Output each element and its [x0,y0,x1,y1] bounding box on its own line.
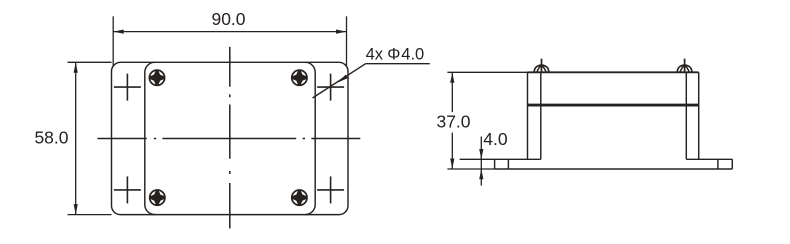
dim 58.0 extension lines [68,62,112,214]
side view: left wall outer edge [527,72,529,159]
centerline horizontal [98,138,361,140]
dim 4.0 arrows [479,149,483,179]
top view: outer plate outline [112,62,349,214]
side view: right flange top surface [686,158,732,160]
side view: base plate left end [494,159,496,169]
leader diagonal [313,64,366,98]
side view: thick mid line [528,104,699,107]
screw side left [534,59,549,73]
screw top-right [292,70,307,85]
svg-text:4xΦ4.0: 4xΦ4.0 [366,46,425,64]
dim 90.0 line [113,31,346,33]
svg-text:58.0: 58.0 [34,128,68,148]
hole center mark bottom-right [317,176,344,203]
dim 90.0 arrows [113,30,346,34]
dim 58.0 arrows [74,62,78,214]
hole center mark bottom-left [114,176,141,203]
dim 90.0 extension lines [113,16,346,65]
top view: inner body left edge [145,62,155,214]
dim 37.0 line [451,72,453,112]
screw side right [677,59,692,73]
dim 4.0 stems [480,137,482,160]
side view: base plate right end [731,159,733,169]
centerline vertical [229,47,231,229]
side view: left flange top surface [495,158,541,160]
top view: inner body right edge [305,62,315,214]
side view: right wall inner edge [685,72,687,159]
dim 37.0 extension lines [447,72,527,169]
screw top-left [149,70,164,85]
dim 4.0 extension line [460,158,495,160]
svg-text:4.0: 4.0 [483,129,508,149]
hole center mark top-left [114,74,141,101]
screw bottom-left [150,190,165,205]
side view: right flange hole edge line [717,159,719,169]
side view: left flange hole edge line [507,159,509,169]
side view: top line [528,71,699,73]
dim 37.0 arrows [450,72,454,169]
side view: left wall inner edge [540,72,542,159]
hole center mark top-right [317,74,344,101]
side view: right wall outer edge [698,72,700,159]
screw bottom-right [292,190,307,205]
leader arrowhead [337,75,348,83]
dim 58.0 line [75,62,77,214]
side view: base plate bottom edge [495,168,733,170]
leader 4x phi4.0: underline [366,63,430,65]
svg-text:90.0: 90.0 [211,9,245,29]
svg-text:37.0: 37.0 [436,112,470,132]
